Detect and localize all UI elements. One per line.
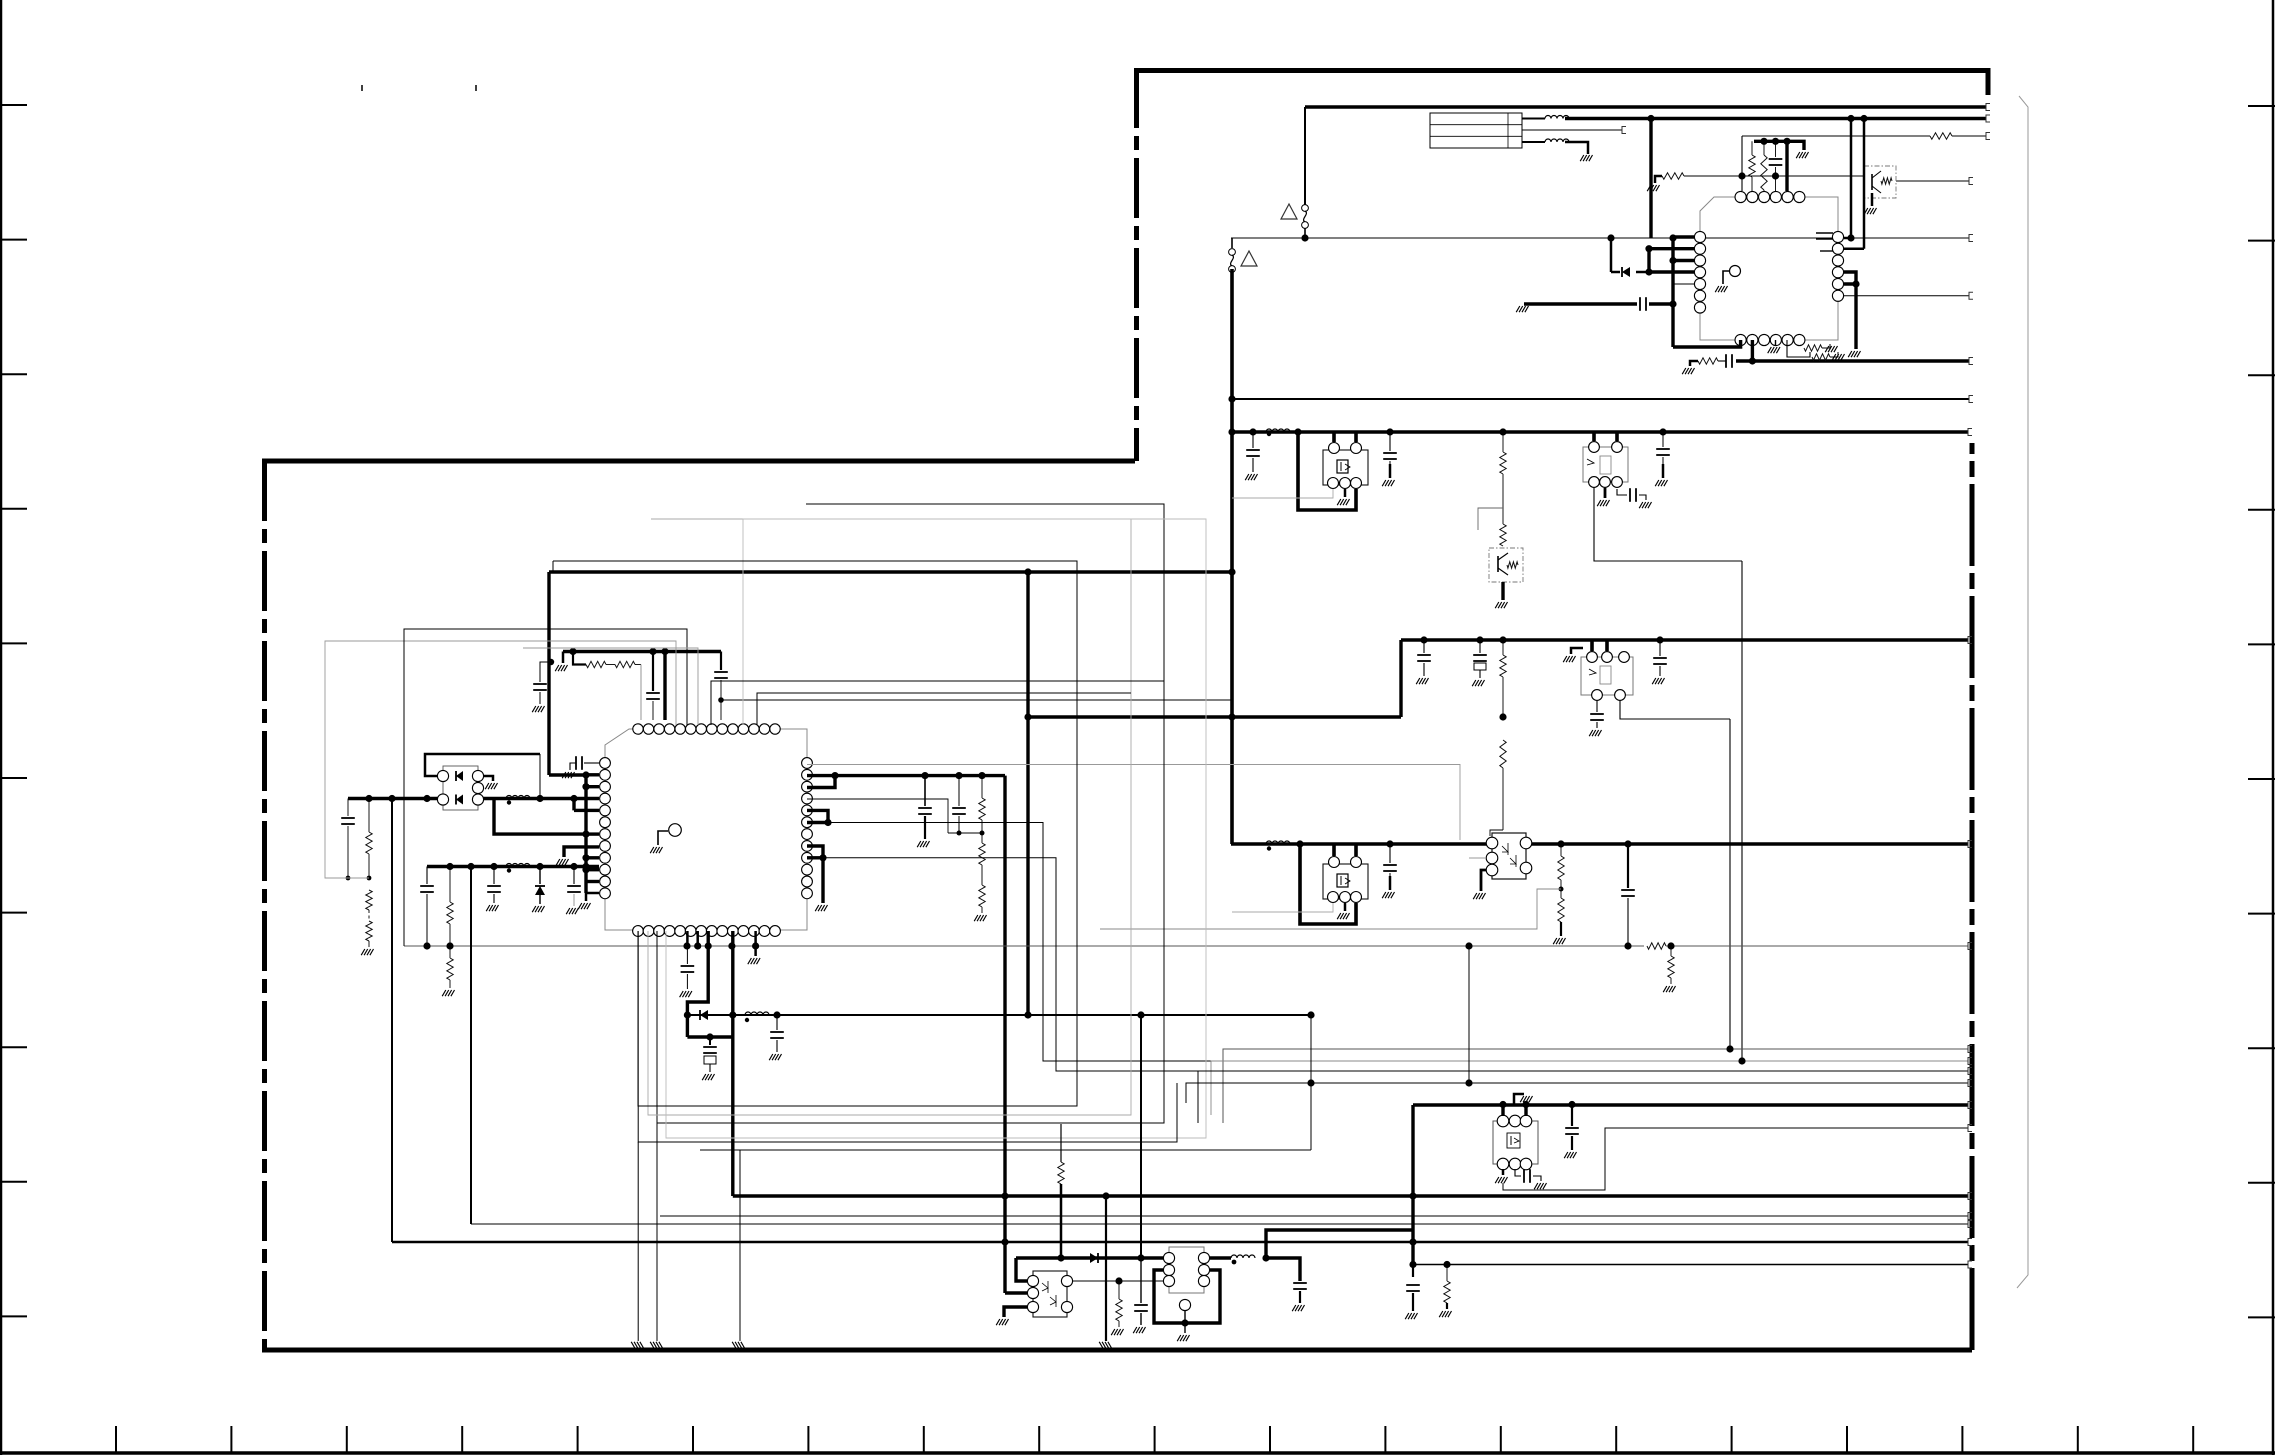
wire diode branch <box>1610 238 1613 272</box>
wire QC to vert1730 <box>1620 701 1730 719</box>
resistor R-r2b <box>449 867 451 903</box>
inductor L-a <box>1266 429 1290 432</box>
wire U2 top rail <box>563 650 721 653</box>
wire net4 <box>1896 180 1969 182</box>
junction rail1-e <box>570 795 577 802</box>
wire serp1 <box>404 629 687 946</box>
junction s3 <box>582 831 589 838</box>
junction u1c-1 <box>1738 172 1745 179</box>
jumper J2 <box>1231 238 1233 248</box>
wire vert 1651 <box>1649 119 1652 239</box>
ground G-u2d <box>680 991 692 997</box>
wire main vertical 1232 <box>1230 269 1234 844</box>
wire stub bus U2 <box>584 775 587 893</box>
bus B <box>1401 638 1968 641</box>
wire net1224 <box>471 1223 1968 1225</box>
IC U1 right pins <box>1832 231 1843 301</box>
ground G-b2 <box>1472 680 1484 686</box>
junction v1006-1196 <box>1001 1192 1008 1199</box>
wire net572 <box>549 570 1232 573</box>
junction s2 <box>582 783 589 790</box>
wire 377 gnd hook <box>1690 361 1698 366</box>
lower block top border <box>262 459 1135 464</box>
diode D-1258 <box>1090 1253 1098 1263</box>
ground G-opto3 <box>996 1319 1008 1325</box>
junction J1-net5 <box>1301 234 1308 241</box>
ground G-QG2 <box>1534 1183 1546 1189</box>
wire QB to vert1742 <box>1594 488 1742 561</box>
transistor Q-u1 dash box <box>1864 166 1896 198</box>
wire stub pin1L <box>1673 235 1694 238</box>
bus F <box>392 1241 1968 1244</box>
wire drop border4 <box>1105 1196 1107 1341</box>
wire net3 with resistor <box>1742 135 1930 137</box>
terminal bus D <box>1968 1102 1972 1109</box>
capacitor C-q1 <box>921 772 928 779</box>
junction v1232-busA <box>1228 428 1235 435</box>
bus D <box>1413 1103 1968 1106</box>
ground G-border2 <box>650 1342 662 1348</box>
junction 1413-1196 <box>1409 1192 1416 1199</box>
ground G-rail2 <box>555 665 567 671</box>
regulator U-T package <box>1169 1247 1204 1293</box>
lower block bottom border <box>262 1348 1972 1353</box>
resistor R-opto <box>1118 1281 1120 1299</box>
connector bracket <box>2017 96 2028 1288</box>
ground G-c304 <box>1516 306 1528 312</box>
wire opto p2 stub <box>1005 1291 1027 1294</box>
capacitor C-b5 <box>1656 636 1663 643</box>
resistor chain R-a3 <box>1499 428 1506 435</box>
terminal net5 <box>1969 235 1973 242</box>
ground G-r2d <box>532 906 544 912</box>
ground G-q3 <box>974 915 986 921</box>
wire net946 junctions <box>423 942 430 949</box>
ground G-q1 <box>917 841 929 847</box>
wire Q-A gnd stub <box>1344 489 1347 497</box>
wire T loop <box>1154 1270 1220 1323</box>
junction 1075 <box>1307 1079 1314 1086</box>
resistor R-u2a pair <box>573 652 586 665</box>
wire long 392 <box>391 799 393 1243</box>
wire net7 <box>1736 359 1969 362</box>
wire stub p5 <box>586 809 599 812</box>
ground G-a1 <box>1245 474 1257 480</box>
wire net700 <box>721 699 1232 701</box>
junction rail b <box>1772 138 1779 145</box>
ground G-b6 <box>1589 730 1601 736</box>
wire u2b drop3 Z <box>687 931 708 1015</box>
junction v1006-1242 <box>1001 1238 1008 1245</box>
diode D-u1 <box>1622 267 1630 277</box>
wire drop pin1R <box>1850 119 1853 239</box>
wire Q-E gray <box>1232 903 1333 912</box>
wire u2b drop1 <box>686 931 689 946</box>
IC U2 body <box>605 729 807 930</box>
junction d4 <box>1852 280 1859 287</box>
wire stub p11 <box>586 880 599 883</box>
wire y833 link <box>948 832 982 834</box>
ground G-r2c <box>486 905 498 911</box>
lower block left dash-dot border <box>262 461 267 1350</box>
junction 1264-b <box>1443 1261 1450 1268</box>
resistor R-u1b <box>1763 141 1765 155</box>
wire vert 1856 <box>1854 284 1857 349</box>
junction l2 <box>1645 268 1652 275</box>
wire pin1B loop <box>1673 340 1741 347</box>
wire drop border2 <box>656 1123 658 1341</box>
resistor R-r1a <box>368 799 370 833</box>
capacitor C-1141 <box>1140 1258 1142 1303</box>
wire u2b drop4 <box>731 931 734 1015</box>
ground G-946b <box>442 990 454 996</box>
ground G-p12 <box>578 903 590 909</box>
wire rail2 to stubbus <box>582 863 589 870</box>
ground G-Tc <box>1292 1305 1304 1311</box>
wire stub pin3L <box>1673 259 1694 262</box>
terminal 1065 <box>1968 1068 1972 1075</box>
wire pin2B drop <box>1751 340 1754 361</box>
resistor R-1264 <box>1446 1265 1448 1282</box>
wire Q-A loop <box>1298 432 1356 510</box>
IC U2 bottom pins <box>633 926 781 937</box>
capacitor C-T <box>1293 1282 1307 1284</box>
wire loop5 <box>638 931 1177 1142</box>
wire serp2 gray <box>523 648 698 725</box>
inductor L-T <box>1231 1255 1255 1258</box>
capacitor C-a1 <box>1249 428 1256 435</box>
ground G-opto-r <box>1111 1329 1123 1335</box>
transistor Q-D package <box>1581 657 1633 695</box>
junction v1028-572 <box>1024 568 1031 575</box>
junction 1045 <box>1726 1045 1733 1052</box>
junction r2 <box>649 648 656 655</box>
wire stub pin2L <box>1649 247 1694 250</box>
capacitor C-elco <box>709 1037 711 1045</box>
capacitor C-c2 <box>1386 840 1393 847</box>
junction rail2-e <box>570 863 577 870</box>
ground G-QD hook <box>1563 656 1575 662</box>
wire route hookD <box>823 858 1198 1071</box>
wire stub pin4L <box>1649 270 1694 273</box>
wire serp3 <box>711 681 1164 725</box>
capacitor C-u1r pair <box>1816 232 1833 234</box>
wire route hookC <box>828 823 1211 1062</box>
capacitor C-b6 <box>1596 701 1598 712</box>
junction 1413-1242 <box>1409 1238 1416 1245</box>
junction QG-a <box>1499 1101 1506 1108</box>
ground G-u1d <box>1825 346 1837 352</box>
wire gray u2r <box>807 765 1460 841</box>
wire U1 pin-a up <box>1741 136 1743 191</box>
resistor R-946b <box>449 946 451 958</box>
wire net1015 <box>687 1014 1311 1016</box>
ground G-d1 <box>1564 1152 1576 1158</box>
capacitor C-u2c <box>584 762 599 764</box>
junction r3 <box>661 648 668 655</box>
wire net5 <box>1231 237 1969 239</box>
transistor Q-E package <box>1323 864 1368 899</box>
wire 1413 vertical <box>1411 1105 1414 1265</box>
wire pin5B loop <box>1787 340 1810 357</box>
IC U2 left pins <box>600 758 611 899</box>
wire CN1 row2 <box>1522 129 1622 131</box>
ground G-elco <box>702 1074 714 1080</box>
wire Q-F gray stub <box>1469 857 1486 859</box>
resistor R-u1e <box>1812 354 1830 360</box>
ground G-u1c <box>1647 185 1659 191</box>
junction 946-2 <box>1667 942 1674 949</box>
ground G-946 <box>1663 986 1675 992</box>
inductor L1 <box>1522 118 1545 120</box>
ground G-pin8 <box>556 859 568 865</box>
junction d1 <box>1847 115 1854 122</box>
ground G-u2mark <box>650 847 662 853</box>
wire U2 right hookC <box>807 810 828 822</box>
wire 549 drop <box>547 572 550 775</box>
IC U2 right pins <box>802 758 813 899</box>
capacitor C-1015 <box>776 1015 778 1030</box>
wire stub bus 1649 <box>1647 249 1650 272</box>
junction 549-662 <box>548 659 554 665</box>
terminal bus E <box>1968 1193 1972 1200</box>
wire 1141 vertical <box>1140 1015 1142 1258</box>
terminal CN1 row2 <box>1622 127 1626 134</box>
ground G-a4 <box>1655 480 1667 486</box>
wire T up-route <box>1266 1230 1413 1258</box>
wire busB feed <box>1028 715 1401 718</box>
junction p1015-c <box>773 1011 780 1018</box>
stray text mark left <box>361 85 363 91</box>
bus C <box>1231 842 1968 845</box>
IC U2 top pins <box>633 724 780 734</box>
terminal net1264 <box>1968 1261 1972 1268</box>
capacitor C-b1 <box>1420 636 1427 643</box>
terminal net8 <box>1969 396 1973 403</box>
resistor R-q3 <box>978 772 985 779</box>
resistor R-b4 <box>1500 740 1506 768</box>
capacitor C-r1a <box>347 799 349 817</box>
ground G-u2b <box>748 958 760 964</box>
transistor Q-C package <box>1583 447 1628 482</box>
ground G-u2c <box>562 772 574 778</box>
wire stub p7 <box>586 832 599 835</box>
wire stub bus 1673 <box>1671 238 1674 347</box>
junction 1055 <box>1738 1057 1745 1064</box>
wire loop1 <box>657 504 1164 1123</box>
wire L2 to ground <box>1565 142 1588 154</box>
wire Q-E loop <box>1300 844 1356 924</box>
terminal bus B <box>1968 637 1972 644</box>
IC U1 top pins <box>1735 191 1805 202</box>
stray text mark right <box>475 85 477 91</box>
wire Q-G top hook <box>1514 1094 1524 1105</box>
wire net1258 <box>1016 1256 1167 1259</box>
capacitor C-u2d <box>686 946 688 964</box>
wire gray 323 <box>325 641 676 878</box>
wire Q-G bot stub1 <box>1502 1169 1505 1175</box>
wire Q-D hook <box>1571 648 1583 654</box>
ground G-rail <box>1796 152 1808 158</box>
wire stub p3 <box>586 785 599 788</box>
wire vertical 1742 <box>1741 561 1743 1061</box>
diode D-1015 <box>700 1010 708 1020</box>
junction 1258-b <box>1137 1254 1144 1261</box>
ground G-1015 <box>769 1054 781 1060</box>
wire 1055 <box>1211 1061 1968 1115</box>
terminal net1 <box>1986 104 1990 111</box>
wire T out <box>1210 1256 1231 1259</box>
warning triangle 2 <box>1241 251 1257 266</box>
junction b1 <box>1749 357 1756 364</box>
wire u2b drop5 <box>754 931 757 946</box>
junction p1015-b <box>729 1011 736 1018</box>
IC U1 body <box>1700 197 1838 340</box>
wire net8 <box>1232 398 1969 400</box>
terminal bus C <box>1968 841 1972 848</box>
ground G-QB <box>1495 602 1507 608</box>
ground G-L2 <box>1580 155 1592 161</box>
ground G-1264a <box>1405 1313 1417 1319</box>
wire r1 drop 494 <box>494 799 586 835</box>
junction s5 <box>582 866 589 873</box>
junction rail1-b <box>388 795 395 802</box>
capacitor C-540 <box>540 662 549 682</box>
wire pin8 hook <box>564 847 599 857</box>
wire 1065 <box>1198 1071 1968 1123</box>
wire J1 tail <box>1304 228 1306 238</box>
wire vertical 1730 <box>1729 719 1731 1049</box>
IC U2 pin1 mark <box>669 824 682 837</box>
junction s1 <box>582 771 589 778</box>
wire opto p1 <box>1016 1258 1027 1281</box>
wire U1 pin4R stub <box>1844 272 1856 284</box>
wire net1264 <box>1413 1264 1968 1266</box>
upper block left dash-dot border <box>1134 68 1139 461</box>
ground G-QF <box>1473 893 1485 899</box>
wire Q-E pins up <box>1332 844 1336 856</box>
ground G-b1 <box>1416 678 1428 684</box>
junction 1258-a <box>1057 1254 1064 1261</box>
ground G-q5 <box>815 905 827 911</box>
junction 1264-a <box>1409 1261 1416 1268</box>
wire net6 <box>1844 295 1969 297</box>
resistor R-u1d <box>1804 345 1822 351</box>
wire cap304 out <box>1649 302 1673 305</box>
junction rail2-a <box>446 863 453 870</box>
wire pin9 stub <box>807 856 823 859</box>
ground G-c2 <box>1382 892 1394 898</box>
junction d2 <box>1847 234 1854 241</box>
wire long 471 <box>470 867 472 1225</box>
wire stub b3 <box>1775 340 1777 345</box>
junction l4 <box>1669 234 1676 241</box>
optocoupler U-opto <box>1033 1271 1067 1317</box>
page left border line <box>0 0 2 1455</box>
terminal net946 <box>1968 943 1972 950</box>
wire net1128 <box>1503 1128 1968 1190</box>
junction v1232-572 <box>1228 568 1235 575</box>
wire pin4 route <box>807 799 948 833</box>
vertical wire to jumper J1 <box>1304 107 1306 205</box>
IC U1 bottom pins <box>1735 334 1805 345</box>
bus E <box>733 1194 1968 1197</box>
capacitor C-1264 <box>1412 1265 1414 1278</box>
diode bridge D-BR <box>443 766 478 810</box>
ground G-r2e <box>566 908 578 914</box>
ground G-540 <box>532 706 544 712</box>
wire Q-D pins up <box>1590 640 1594 651</box>
capacitor C-q2 <box>955 772 962 779</box>
wire drop pin2R <box>1863 119 1866 249</box>
wire U1 pin-e <box>1785 141 1788 191</box>
wire net946 <box>404 945 1644 947</box>
capacitor C-r2e <box>573 867 575 885</box>
upper block top border <box>1135 71 1988 96</box>
wire drop border3 <box>739 1150 741 1341</box>
terminal 1045 <box>1968 1046 1972 1053</box>
wire net2 <box>1565 117 1986 120</box>
capacitor C-304 <box>1639 297 1641 311</box>
junction rail1-d <box>536 795 543 802</box>
junction l3 <box>1645 245 1652 252</box>
wire u2b gnd stub <box>754 946 757 956</box>
junction l6 <box>1669 300 1676 307</box>
junction s4 <box>582 854 589 861</box>
ground U1 mark <box>1715 286 1727 292</box>
wire u2b drop2 <box>696 931 699 946</box>
junction rail a <box>1760 138 1767 145</box>
wire Q-A gray <box>1232 489 1333 498</box>
ground G-QG-top <box>1520 1096 1532 1102</box>
inductor L-r2 <box>506 864 530 867</box>
junction b3 <box>1499 713 1506 720</box>
terminal 1075 <box>1968 1080 1972 1087</box>
wire stub p9 <box>586 856 599 859</box>
wire 377 mid <box>1718 360 1726 362</box>
wire 549 corner <box>549 773 586 776</box>
wire loop4 <box>553 561 1077 1106</box>
wire Q-B ground <box>1501 582 1504 600</box>
junction rail2-c <box>490 863 497 870</box>
page left ruler ticks <box>0 105 27 1316</box>
IC U1 pin1 mark <box>1730 266 1741 277</box>
wire opto p3 <box>1004 1307 1027 1317</box>
ground G-1141 <box>1133 1327 1145 1333</box>
junction net8 start <box>1228 395 1235 402</box>
wire rail2 <box>427 865 599 868</box>
junction l5 <box>1669 257 1676 264</box>
capacitor C-u1a <box>1775 141 1777 157</box>
wire bridge tr stub <box>484 776 493 781</box>
transistor Q-A package <box>1323 450 1368 485</box>
capacitor C-r2c <box>493 867 495 885</box>
ground G-u1b3 <box>1768 347 1780 353</box>
page right border line <box>2272 0 2275 1455</box>
wire y1037 <box>686 1015 689 1037</box>
wire net1 top <box>1305 105 1986 108</box>
junction rail1-c <box>423 795 430 802</box>
wire a3 side <box>1478 508 1503 530</box>
resistor R-u1c <box>1655 176 1662 183</box>
junction net2-A <box>1647 115 1654 122</box>
terminal net4 <box>1969 178 1973 185</box>
ground G-QG1 <box>1495 1177 1507 1183</box>
junction n776-1 <box>831 772 838 779</box>
wire Q-u1 ground <box>1871 193 1874 206</box>
resistor R-b3 <box>1499 636 1506 643</box>
ground G-QC <box>1597 500 1609 506</box>
